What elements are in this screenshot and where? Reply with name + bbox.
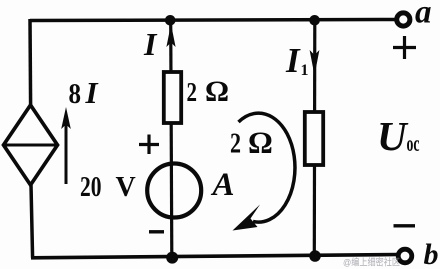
- voltage source 20 V (circle): [147, 164, 201, 218]
- current direction arrow of 8I source: [61, 107, 71, 184]
- svg-text:V: V: [116, 172, 136, 203]
- wire bottom: [31, 255, 399, 258]
- value label 2 ohm (right resistor): [230, 125, 273, 160]
- mesh current arrow A (curved arrow): [233, 113, 295, 230]
- svg-text:a: a: [415, 0, 432, 31]
- svg-text:2: 2: [230, 129, 241, 160]
- wire top: [30, 20, 395, 21]
- watermark: [343, 257, 400, 269]
- label A (mesh): [211, 167, 235, 203]
- junction node top right: [309, 15, 320, 26]
- svg-text:@编上细密社区: @编上细密社区: [343, 257, 400, 269]
- svg-text:oc: oc: [407, 131, 420, 156]
- label I1: [285, 41, 309, 80]
- label I: [143, 26, 158, 62]
- label 8I: [69, 75, 99, 110]
- wire right branch: [313, 20, 317, 256]
- svg-text:1: 1: [301, 62, 309, 79]
- svg-text:U: U: [377, 113, 409, 159]
- svg-text:I: I: [143, 26, 158, 62]
- minus sign at terminal b: [394, 224, 416, 227]
- minus sign (voltage source polarity): [149, 230, 164, 233]
- junction node bottom middle: [166, 252, 178, 264]
- svg-text:Ω: Ω: [205, 75, 229, 108]
- svg-text:A: A: [211, 167, 235, 203]
- svg-text:b: b: [424, 238, 439, 269]
- label b: [424, 238, 439, 269]
- junction node bottom right: [309, 250, 321, 262]
- wire left branch: [30, 19, 33, 258]
- svg-text:20: 20: [80, 172, 102, 203]
- terminal a: [397, 13, 410, 26]
- label Uoc: [377, 113, 420, 159]
- plus sign (voltage source polarity): [139, 135, 159, 155]
- label a: [415, 0, 432, 31]
- current arrow I (middle branch, up): [166, 24, 175, 47]
- current arrow I1 (right branch, down): [310, 50, 320, 76]
- svg-text:I: I: [85, 75, 99, 110]
- dependent current source 8I (diamond): [4, 105, 58, 185]
- value label 2 ohm (middle resistor): [187, 75, 230, 108]
- junction node top middle: [165, 15, 176, 26]
- svg-text:Ω: Ω: [248, 125, 273, 160]
- svg-text:8: 8: [69, 79, 82, 110]
- label 20 V: [80, 172, 136, 203]
- svg-text:I: I: [285, 41, 301, 80]
- resistor 2 ohm (middle branch): [164, 72, 181, 123]
- plus sign at terminal a: [393, 36, 416, 59]
- terminal b: [398, 249, 412, 263]
- svg-text:2: 2: [187, 77, 198, 107]
- resistor (right branch): [305, 112, 323, 165]
- wire middle branch: [171, 20, 172, 257]
